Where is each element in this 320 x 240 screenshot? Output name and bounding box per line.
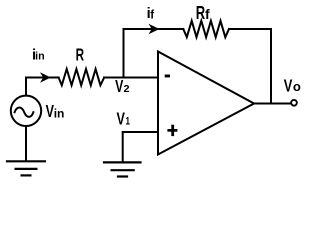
op-amp U1 bbox=[158, 52, 254, 155]
wire op-amp output bbox=[254, 103, 290, 105]
minus sign (inverting input) bbox=[165, 75, 170, 78]
wire non-inverting input bbox=[123, 132, 158, 162]
label R bbox=[76, 46, 85, 65]
label Vin bbox=[46, 102, 54, 121]
resistor Rf bbox=[183, 21, 229, 37]
resistor R bbox=[59, 69, 105, 85]
label V2 bbox=[115, 77, 123, 97]
wire feedback top to Rf bbox=[124, 28, 184, 30]
svg-text:V: V bbox=[284, 77, 293, 96]
wire resistor R to op-amp inverting input bbox=[104, 77, 158, 79]
label if bbox=[147, 6, 151, 22]
wire feedback vertical from node V2 bbox=[123, 29, 125, 78]
svg-text:f: f bbox=[205, 6, 210, 22]
wire Rf to output branch bbox=[229, 29, 271, 104]
svg-text:in: in bbox=[35, 51, 45, 63]
svg-text:2: 2 bbox=[124, 83, 130, 95]
arrow iin bbox=[40, 72, 51, 82]
source Vin circle bbox=[11, 96, 41, 126]
label iin bbox=[32, 48, 36, 64]
ground (source) bbox=[7, 161, 45, 175]
svg-text:R: R bbox=[76, 46, 85, 65]
svg-text:V: V bbox=[115, 77, 123, 97]
svg-text:in: in bbox=[54, 107, 65, 121]
arrow if bbox=[149, 24, 160, 34]
svg-text:1: 1 bbox=[126, 115, 131, 128]
svg-text:o: o bbox=[293, 79, 301, 94]
svg-text:f: f bbox=[150, 9, 154, 22]
wire input from source to resistor R bbox=[26, 78, 59, 96]
ground (V1) bbox=[104, 162, 141, 176]
label V1 bbox=[117, 109, 125, 128]
source sine wave bbox=[15, 108, 34, 117]
output terminal circle bbox=[291, 100, 297, 106]
label Vo bbox=[284, 77, 293, 96]
wire source to ground bbox=[25, 127, 27, 161]
svg-text:V: V bbox=[117, 109, 125, 128]
plus sign (non-inverting input) bbox=[167, 125, 177, 136]
label Rf bbox=[196, 4, 206, 24]
